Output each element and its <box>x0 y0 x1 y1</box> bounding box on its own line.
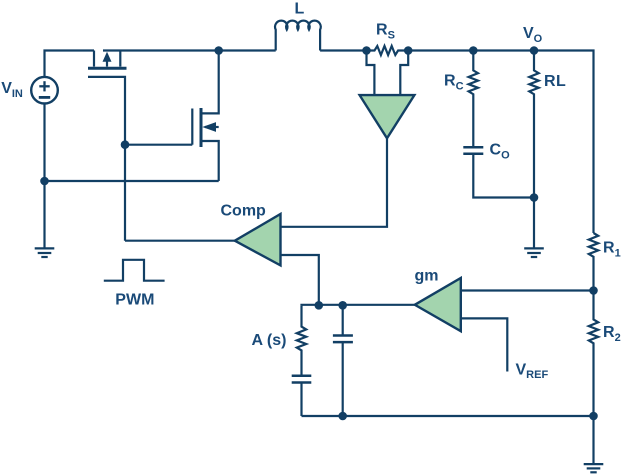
svg-text:PWM: PWM <box>115 292 154 309</box>
wire switch-node top rail <box>103 49 276 51</box>
svg-text:RC: RC <box>444 73 464 93</box>
PWM waveform <box>104 260 165 281</box>
svg-text:R1: R1 <box>603 240 621 260</box>
node RS right <box>404 46 413 55</box>
node R1-R2 junction <box>589 286 598 295</box>
wire R2 bottom to ground <box>592 416 594 464</box>
ground (below RL) <box>524 248 544 257</box>
wire RS left tap <box>367 51 375 96</box>
resistor RC <box>469 51 478 148</box>
wire RL bottom to ground <box>533 198 535 249</box>
node gate junction <box>121 140 130 149</box>
wire Vin bottom <box>43 104 45 249</box>
wire gate to Q2 <box>125 144 192 146</box>
svg-text:Comp: Comp <box>221 203 267 220</box>
node cap branch bottom <box>338 412 347 421</box>
svg-text:CO: CO <box>490 142 511 162</box>
svg-text:gm: gm <box>415 268 439 285</box>
wire Comp output to gate drive <box>125 240 235 242</box>
wire RS right to Vo rail <box>408 51 593 234</box>
node cap branch top <box>338 301 347 310</box>
wire bottom rail to Q2 source <box>45 180 219 182</box>
wire gm lower input to VREF <box>461 318 508 371</box>
capacitor C2 (parallel comp cap) <box>333 305 353 416</box>
capacitor A(s) C <box>292 376 312 416</box>
ground (bottom right) <box>584 464 604 472</box>
transistor Q1 (high-side FET) <box>88 51 127 69</box>
svg-text:RS: RS <box>376 22 395 42</box>
node bottom right junction <box>589 412 598 421</box>
wire gm output to compensation <box>302 304 415 307</box>
node Vo / RL top <box>530 46 539 55</box>
node RL bottom <box>530 193 539 202</box>
wire Q1 gate <box>88 77 125 241</box>
svg-text:A (s): A (s) <box>252 332 287 349</box>
op-amp U2 (Comp comparator) <box>235 214 281 265</box>
inductor L <box>275 21 321 51</box>
wire R1-R2 junction to gm input <box>461 289 594 291</box>
resistor R2 <box>589 291 598 417</box>
ground (below VIN) <box>35 248 55 257</box>
op-amp U3 (gm error amp) <box>415 278 461 331</box>
wire bottom rail <box>302 415 594 417</box>
node RC top <box>469 46 478 55</box>
svg-text:VIN: VIN <box>1 80 23 100</box>
svg-text:L: L <box>295 1 305 18</box>
wire Vin top to HS-FET drain <box>45 51 95 78</box>
svg-text:RL: RL <box>544 73 566 90</box>
resistor RS <box>367 46 409 55</box>
capacitor CO <box>463 147 534 197</box>
svg-text:VO: VO <box>523 25 543 45</box>
voltage source VIN <box>31 77 58 104</box>
node comp input junction <box>315 301 324 310</box>
wire sense amp output to Comp <box>281 138 388 227</box>
node RS left <box>362 46 371 55</box>
wire Comp lower input <box>281 255 319 305</box>
resistor A(s) R <box>297 305 306 375</box>
wire RS right tap <box>400 51 408 96</box>
svg-text:R2: R2 <box>603 324 621 344</box>
node switch node <box>214 46 223 55</box>
node Vin-gnd junction <box>40 177 49 186</box>
transistor Q2 (low-side FET) <box>192 51 218 182</box>
resistor RL <box>529 51 538 198</box>
resistor R1 <box>589 233 598 291</box>
svg-text:VREF: VREF <box>516 362 549 382</box>
op-amp U1 (current sense amp) <box>360 95 415 138</box>
wire L to RS <box>320 49 366 51</box>
